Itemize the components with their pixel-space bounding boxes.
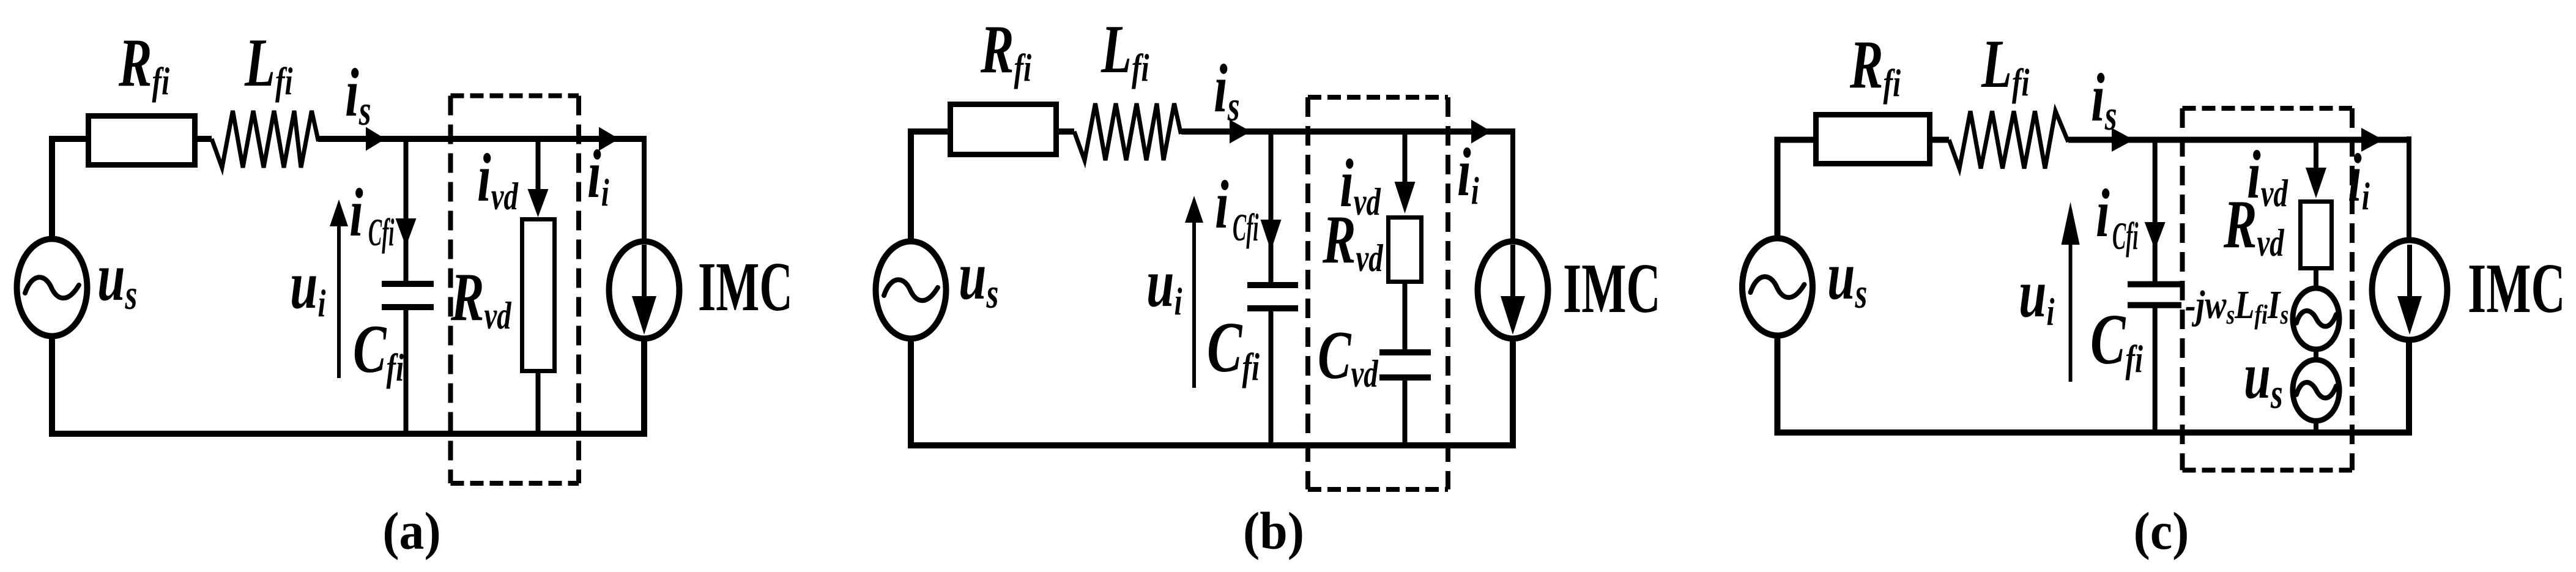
svg-text:Cfi: Cfi (368, 212, 395, 254)
current source IMC ellipse (b) (1478, 242, 1548, 339)
inductor Lfi (a) (212, 111, 319, 168)
arrow: ivd into Rvd (b) (1395, 182, 1416, 214)
resistor Rvd (a) (522, 220, 555, 371)
wire: right vertical to IMC (b) (1510, 128, 1515, 243)
dashed box: virtual damping (b) (1308, 95, 1448, 100)
wire: Rvd branch upper (a) (536, 139, 541, 191)
svg-text:Cfi: Cfi (2112, 215, 2139, 258)
wire: Cfi to bottom rail (a) (404, 308, 409, 434)
wire: Rvd to bottom rail (a) (536, 372, 541, 434)
wire: Rvd branch upper (b) (1403, 132, 1408, 184)
wire: right vertical to IMC (a) (642, 136, 647, 243)
arrow: iCfi up (c) (2062, 202, 2080, 245)
wire: node to Cfi (c) (2153, 140, 2158, 283)
wire: top rail right of inductor (c) (2068, 137, 2409, 143)
arrow: iCfi up (a) (330, 199, 348, 226)
iCfi arrow shaft (c) (2069, 241, 2073, 382)
svg-text:Cfi: Cfi (1233, 207, 1259, 250)
inductor Lfi (c) (1949, 111, 2068, 169)
iCfi arrow shaft (a) (337, 224, 341, 378)
svg-text:IMC: IMC (698, 248, 793, 326)
wire: left loop top (source to inductor) (b) (911, 132, 1074, 242)
wire: left loop top (source to inductor) (a) (52, 139, 212, 242)
arrow: is current (b) (1230, 120, 1251, 144)
svg-text:i: i (2096, 176, 2110, 251)
wire: node to Cfi (a) (404, 139, 409, 281)
arrow: IMC head (b) (1501, 296, 1525, 335)
resistor Rfi (b) (951, 105, 1056, 155)
sine wave of source2 (c) (2296, 382, 2336, 398)
compensation source us ellipse (c) (2293, 360, 2339, 421)
capacitor Cfi plates (c) (2128, 281, 2181, 288)
wire: Cfi to bottom rail (c) (2153, 306, 2158, 433)
arrow: into Cfi node (a) (396, 218, 417, 247)
IMC arrow shaft (c) (2407, 245, 2412, 299)
wire: bottom rail (c) (1778, 333, 2410, 433)
IMC arrow shaft (b) (1510, 245, 1515, 299)
arrow: ivd into Rvd (a) (528, 189, 549, 217)
source us ellipse (b) (876, 242, 946, 339)
svg-text:IMC: IMC (2468, 250, 2566, 328)
arrow: is current (a) (366, 127, 385, 151)
sine wave of source1 (c) (2296, 311, 2336, 327)
current source IMC ellipse (a) (609, 242, 680, 339)
svg-text:IMC: IMC (1563, 250, 1661, 328)
wire: source1 to source2 (c) (2314, 348, 2318, 361)
svg-text:(c): (c) (2134, 502, 2189, 561)
arrow: into Cfi node (c) (2145, 222, 2166, 250)
source us ellipse (c) (1742, 239, 1813, 336)
svg-text:-jwsLfiIs: -jwsLfiIs (2185, 282, 2288, 329)
wire: top rail right of inductor (b) (1181, 128, 1513, 135)
arrow: IMC head (c) (2397, 296, 2422, 335)
wire: top rail right of inductor (a) (318, 136, 644, 142)
svg-text:(b): (b) (1243, 502, 1304, 561)
arrow: ivd into Rvd (c) (2306, 168, 2326, 198)
wire: source2 to bottom rail (c) (2314, 420, 2318, 433)
resistor Rvd (c) (2301, 202, 2332, 269)
wire: bottom rail (a) (52, 334, 644, 434)
sine wave of source us (b) (884, 280, 938, 300)
svg-text:i: i (1215, 168, 1229, 243)
wire: node to Cfi (b) (1269, 132, 1274, 283)
svg-text:i: i (349, 176, 363, 251)
wire: right vertical to IMC (c) (2407, 136, 2411, 243)
capacitor Cfi plates (b) (1247, 282, 1298, 288)
arrow: ii current (a) (599, 127, 619, 151)
wire: Rvd to source1 (c) (2314, 269, 2318, 289)
iCfi arrow shaft (b) (1192, 220, 1196, 388)
arrow: ii current (b) (1471, 120, 1491, 144)
resistor Rvd (b) (1389, 218, 1422, 282)
arrow: IMC head (a) (632, 296, 656, 335)
dashed box: virtual damping (a) (451, 94, 579, 98)
wire: Cfi to bottom rail (b) (1269, 310, 1274, 445)
svg-text:(a): (a) (382, 502, 440, 561)
sine wave of source us (c) (1751, 277, 1805, 297)
wire: ivd branch upper (c) (2314, 140, 2318, 169)
source us ellipse (a) (17, 239, 87, 336)
resistor Rfi (c) (1816, 115, 1930, 164)
arrow: into Cfi node (b) (1261, 220, 1282, 251)
arrow: iCfi up (b) (1185, 196, 1203, 223)
sine wave of source us (a) (25, 277, 79, 298)
resistor Rfi (a) (89, 116, 195, 165)
inductor Lfi (b) (1074, 103, 1181, 160)
arrow: ii current (c) (2361, 128, 2383, 152)
compensation source -jwsLfiIs ellipse (c) (2293, 288, 2339, 349)
IMC arrow shaft (a) (642, 245, 647, 299)
wire: bottom rail (b) (911, 335, 1513, 445)
wire: left loop top (source to inductor) (c) (1778, 140, 1950, 242)
wire: Cvd to bottom rail (b) (1403, 379, 1408, 445)
wire: Rvd to Cvd (b) (1403, 283, 1408, 350)
current source IMC ellipse (c) (2372, 240, 2448, 340)
arrow: is current (c) (2112, 128, 2134, 152)
capacitor Cvd plates (b) (1379, 349, 1431, 355)
capacitor Cfi plates (a) (382, 281, 434, 287)
dashed box: virtual damping (c) (2183, 106, 2353, 111)
